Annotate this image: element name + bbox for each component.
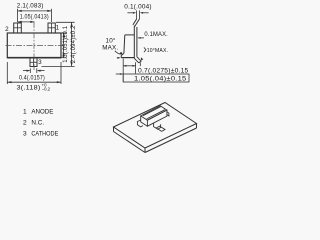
svg-text:ANODE: ANODE — [31, 109, 54, 116]
svg-text:0.7(.0275)±0.15: 0.7(.0275)±0.15 — [138, 68, 189, 75]
svg-text:0.4(.0157): 0.4(.0157) — [19, 74, 45, 81]
svg-text:1: 1 — [56, 25, 60, 32]
svg-text:2.1(.083): 2.1(.083) — [17, 2, 44, 9]
svg-text:1.05(.04)±0.15: 1.05(.04)±0.15 — [134, 75, 187, 82]
svg-text:2: 2 — [23, 120, 27, 127]
svg-text:1: 1 — [23, 109, 27, 116]
svg-text:1.05(.0413): 1.05(.0413) — [20, 14, 49, 21]
svg-text:1.3(.051)±0.1: 1.3(.051)±0.1 — [63, 25, 69, 62]
svg-text:N.C.: N.C. — [31, 120, 44, 127]
svg-text:MAX.: MAX. — [102, 45, 118, 52]
svg-text:CATHODE: CATHODE — [31, 131, 58, 138]
svg-text:10°MAX.: 10°MAX. — [147, 48, 168, 54]
svg-text:10°: 10° — [106, 37, 116, 45]
svg-text:−0.2: −0.2 — [42, 86, 51, 91]
svg-text:3: 3 — [38, 59, 42, 66]
svg-text:0.1MAX.: 0.1MAX. — [144, 31, 168, 38]
svg-text:2: 2 — [5, 26, 9, 33]
svg-text:2.4(.094)±0.2: 2.4(.094)±0.2 — [71, 25, 77, 63]
svg-text:3(.118): 3(.118) — [17, 84, 41, 91]
svg-text:3: 3 — [23, 131, 27, 138]
svg-text:0.1(.004): 0.1(.004) — [124, 4, 152, 11]
